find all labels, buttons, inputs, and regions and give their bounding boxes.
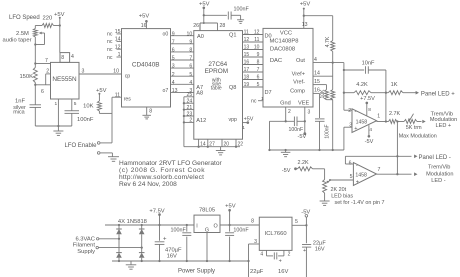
svg-text:15: 15 <box>314 79 320 85</box>
svg-text:1K: 1K <box>391 82 398 88</box>
svg-text:12: 12 <box>244 37 250 43</box>
svg-text:13: 13 <box>302 22 308 28</box>
svg-text:LFO Speed: LFO Speed <box>9 15 40 21</box>
svg-text:18: 18 <box>244 75 250 81</box>
svg-text:4: 4 <box>189 80 192 86</box>
svg-text:Power Supply: Power Supply <box>178 269 215 275</box>
svg-text:4: 4 <box>71 54 74 60</box>
svg-text:nc: nc <box>107 55 113 61</box>
svg-text:7: 7 <box>189 56 192 62</box>
svg-text:Q1: Q1 <box>229 32 236 38</box>
svg-text:+: + <box>303 248 306 254</box>
svg-text:2.5M: 2.5M <box>16 31 29 37</box>
svg-text:audio taper: audio taper <box>3 38 32 44</box>
svg-text:+5V: +5V <box>244 116 254 122</box>
svg-text:4: 4 <box>314 57 317 63</box>
svg-text:Filament: Filament <box>73 243 96 249</box>
svg-text:78L05: 78L05 <box>199 208 215 214</box>
svg-text:17: 17 <box>244 67 250 73</box>
svg-text:11: 11 <box>254 37 259 43</box>
svg-text:4: 4 <box>369 127 372 133</box>
svg-text:470µF: 470µF <box>165 248 182 254</box>
svg-text:9: 9 <box>189 39 192 45</box>
svg-text:5: 5 <box>350 174 353 180</box>
svg-text:15: 15 <box>244 52 250 58</box>
svg-text:res: res <box>124 96 132 102</box>
svg-text:LED -: LED - <box>431 178 445 184</box>
svg-text:12: 12 <box>115 44 121 50</box>
svg-text:150K: 150K <box>19 74 33 80</box>
svg-text:7: 7 <box>172 39 175 45</box>
svg-text:+5V: +5V <box>225 203 236 209</box>
svg-text:1: 1 <box>55 101 58 107</box>
svg-text:10K: 10K <box>83 104 93 110</box>
svg-text:6.3VAC: 6.3VAC <box>75 236 95 242</box>
svg-text:1458: 1458 <box>356 120 368 126</box>
svg-text:ICL7660: ICL7660 <box>265 231 287 237</box>
svg-text:14: 14 <box>115 37 121 43</box>
svg-text:set for -1.4V on pin 7: set for -1.4V on pin 7 <box>335 200 385 206</box>
svg-text:VEE: VEE <box>298 100 309 106</box>
svg-text:4.2K: 4.2K <box>356 82 368 88</box>
svg-text:6: 6 <box>257 75 260 81</box>
svg-text:13: 13 <box>172 88 178 94</box>
svg-text:1nF: 1nF <box>15 99 25 105</box>
svg-text:o0: o0 <box>163 32 169 38</box>
svg-text:220: 220 <box>43 16 53 22</box>
svg-text:+5V: +5V <box>96 88 107 94</box>
svg-text:16: 16 <box>244 60 250 66</box>
svg-text:D0: D0 <box>265 33 272 39</box>
svg-text:+5V: +5V <box>199 1 210 7</box>
svg-text:Out: Out <box>296 58 305 64</box>
svg-text:LED +: LED + <box>436 123 452 129</box>
svg-text:-5V: -5V <box>282 168 291 174</box>
svg-text:+: + <box>279 259 282 265</box>
svg-text:Hammonator 2RVT LFO Generator: Hammonator 2RVT LFO Generator <box>119 160 223 167</box>
svg-text:LED bias: LED bias <box>331 193 353 199</box>
svg-text:9: 9 <box>257 52 260 58</box>
svg-text:G: G <box>205 227 209 233</box>
svg-text:Max Modulation: Max Modulation <box>399 133 437 139</box>
svg-text:1: 1 <box>377 113 380 119</box>
svg-text:22µF: 22µF <box>313 240 326 246</box>
svg-text:4X 1N5818: 4X 1N5818 <box>118 219 147 225</box>
svg-text:5: 5 <box>74 101 77 107</box>
svg-text:6: 6 <box>349 160 352 166</box>
svg-text:nc: nc <box>107 39 113 45</box>
svg-text:8: 8 <box>251 218 254 224</box>
svg-text:2: 2 <box>288 109 291 115</box>
svg-text:-5V: -5V <box>298 134 307 140</box>
svg-text:6: 6 <box>172 48 175 54</box>
svg-text:7: 7 <box>378 167 381 173</box>
svg-text:CD4040B: CD4040B <box>132 62 160 69</box>
svg-text:12: 12 <box>254 30 260 36</box>
svg-text:16V: 16V <box>167 254 177 260</box>
svg-text:16: 16 <box>314 88 320 94</box>
svg-text:6: 6 <box>41 89 44 95</box>
svg-text:table: table <box>211 86 222 92</box>
svg-text:3: 3 <box>172 64 175 70</box>
svg-text:Panel LED +: Panel LED + <box>421 91 455 97</box>
svg-text:DAC: DAC <box>270 58 282 64</box>
svg-text:-: - <box>355 109 357 115</box>
svg-text:3: 3 <box>82 69 85 75</box>
svg-text:Q8: Q8 <box>229 85 236 91</box>
svg-text:-5V: -5V <box>365 139 374 145</box>
svg-text:+: + <box>356 180 359 186</box>
svg-text:19: 19 <box>244 82 250 88</box>
svg-text:5: 5 <box>172 56 175 62</box>
svg-text:2: 2 <box>46 69 49 75</box>
svg-text:Vref+: Vref+ <box>292 71 305 77</box>
svg-text:2K 20t: 2K 20t <box>331 187 347 193</box>
svg-text:28: 28 <box>220 23 226 29</box>
svg-text:8: 8 <box>257 60 260 66</box>
svg-text:vpp: vpp <box>229 117 237 123</box>
svg-text:+7.5V: +7.5V <box>360 96 375 102</box>
svg-text:9: 9 <box>172 31 175 37</box>
svg-text:A8: A8 <box>196 90 203 96</box>
svg-text:+5V: +5V <box>139 14 150 20</box>
svg-text:mica: mica <box>13 110 24 116</box>
svg-text:Rev 6 24 Nov, 2008: Rev 6 24 Nov, 2008 <box>119 181 177 188</box>
svg-text:4.7K: 4.7K <box>325 36 331 47</box>
svg-text:8: 8 <box>61 55 64 61</box>
svg-text:+5V: +5V <box>300 2 311 8</box>
svg-text:25: 25 <box>187 92 193 98</box>
svg-text:LFO Enable: LFO Enable <box>64 143 97 149</box>
svg-text:11: 11 <box>115 92 120 98</box>
svg-text:nc: nc <box>107 32 113 38</box>
svg-text:22µF: 22µF <box>250 269 264 275</box>
svg-text:100nF: 100nF <box>233 227 249 233</box>
svg-text:21: 21 <box>187 105 193 111</box>
svg-text:2.2K: 2.2K <box>297 160 308 166</box>
svg-text:10K: 10K <box>320 89 326 99</box>
svg-text:13: 13 <box>244 45 250 51</box>
svg-text:Panel LED -: Panel LED - <box>419 155 451 161</box>
svg-text:16V: 16V <box>278 269 288 275</box>
svg-text:EPROM: EPROM <box>205 68 228 75</box>
svg-text:http://www.solorb.com/elect: http://www.solorb.com/elect <box>119 174 204 181</box>
svg-text:100nF: 100nF <box>325 124 331 138</box>
svg-text:-5V: -5V <box>301 209 310 215</box>
svg-text:Comp: Comp <box>290 88 305 94</box>
svg-text:100nF: 100nF <box>234 6 250 12</box>
svg-text:2: 2 <box>172 72 175 78</box>
svg-text:5K trm: 5K trm <box>406 125 422 131</box>
svg-text:23: 23 <box>187 111 193 117</box>
svg-text:100nF: 100nF <box>289 127 304 133</box>
svg-text:11: 11 <box>244 30 249 36</box>
svg-text:14: 14 <box>314 71 320 77</box>
svg-text:2: 2 <box>288 251 291 257</box>
svg-text:NE555N: NE555N <box>52 76 77 83</box>
svg-text:A0: A0 <box>197 34 204 40</box>
svg-text:5: 5 <box>189 72 192 78</box>
svg-text:D7: D7 <box>265 90 272 96</box>
svg-text:5: 5 <box>257 82 260 88</box>
svg-text:O: O <box>213 223 217 229</box>
svg-text:o7: o7 <box>163 88 169 94</box>
svg-text:+7.5V: +7.5V <box>149 208 164 214</box>
svg-text:16V: 16V <box>315 247 325 253</box>
svg-text:15: 15 <box>115 29 121 35</box>
svg-text:7: 7 <box>45 58 48 64</box>
svg-text:DAC0808: DAC0808 <box>270 47 295 53</box>
svg-text:1: 1 <box>242 125 245 131</box>
svg-text:2.7K: 2.7K <box>389 111 400 117</box>
svg-text:100nF: 100nF <box>171 227 187 233</box>
svg-text:Vref-: Vref- <box>293 80 305 86</box>
svg-text:1: 1 <box>261 96 264 102</box>
svg-text:3: 3 <box>254 239 257 245</box>
svg-text:A12: A12 <box>196 118 206 124</box>
svg-text:6: 6 <box>189 64 192 70</box>
svg-text:Supply: Supply <box>77 249 95 255</box>
svg-text:Modulation: Modulation <box>426 172 453 178</box>
svg-text:7: 7 <box>257 67 260 73</box>
svg-text:2: 2 <box>189 118 192 124</box>
svg-text:4: 4 <box>260 251 263 257</box>
svg-text:4: 4 <box>172 80 175 86</box>
svg-text:27C64: 27C64 <box>208 61 227 68</box>
svg-text:Gnd: Gnd <box>280 100 291 106</box>
svg-text:10: 10 <box>187 31 193 37</box>
svg-text:5: 5 <box>295 219 298 225</box>
svg-text:MC1408P8: MC1408P8 <box>269 39 298 45</box>
svg-text:8: 8 <box>149 109 152 115</box>
svg-text:nc: nc <box>251 99 257 105</box>
svg-text:10: 10 <box>113 69 119 75</box>
svg-text:I: I <box>196 223 198 229</box>
svg-text:nc: nc <box>107 47 113 53</box>
svg-text:8: 8 <box>189 48 192 54</box>
svg-text:10nF: 10nF <box>362 60 375 66</box>
svg-text:1: 1 <box>118 52 121 58</box>
svg-text:3: 3 <box>308 110 311 116</box>
svg-text:(c) 2008 G. Forrest Cook: (c) 2008 G. Forrest Cook <box>119 167 205 174</box>
svg-text:2: 2 <box>348 108 351 114</box>
svg-text:100nF: 100nF <box>77 117 94 123</box>
svg-text:Trem/Vib: Trem/Vib <box>428 164 450 170</box>
svg-text:-: - <box>356 163 358 169</box>
svg-text:1458: 1458 <box>355 173 367 179</box>
svg-text:24: 24 <box>187 99 193 105</box>
svg-text:8: 8 <box>368 107 371 113</box>
svg-text:VCC: VCC <box>280 31 292 37</box>
svg-text:16: 16 <box>141 23 147 29</box>
svg-text:26: 26 <box>193 23 199 29</box>
svg-text:10: 10 <box>254 45 260 51</box>
svg-text:cp: cp <box>125 74 131 80</box>
svg-text:+: + <box>354 126 357 132</box>
